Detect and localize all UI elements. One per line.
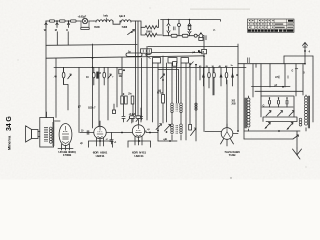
svg-text:+0,1µF: +0,1µF [129,114,136,116]
svg-text:20B: 20B [232,104,236,106]
svg-text:34 G: 34 G [6,116,13,131]
svg-text:Ω15s 7: Ω15s 7 [88,107,96,110]
svg-text:UBC11: UBC11 [134,154,144,158]
svg-text:+0,02µF: +0,02µF [78,16,87,19]
svg-text:balu: balu [104,15,109,18]
svg-text:Minerva: Minerva [7,135,12,150]
svg-text:r: r [113,76,114,79]
svg-text:+µH: +µH [163,139,167,141]
svg-text:02 5µ: 02 5µ [157,93,163,95]
svg-text:UBF11: UBF11 [96,154,105,158]
svg-text:1700B: 1700B [63,153,72,157]
svg-text:714B: 714B [229,153,237,157]
svg-text:4µH 8: 4µH 8 [119,15,126,18]
svg-text:50000: 50000 [146,32,153,34]
svg-text:K: K [66,28,68,32]
svg-text:n°.: n°. [213,30,216,32]
svg-text:7H08: 7H08 [122,26,128,29]
svg-text:+r: +r [106,139,108,141]
svg-text:7H08: 7H08 [94,26,100,29]
svg-text:M: M [55,28,57,32]
